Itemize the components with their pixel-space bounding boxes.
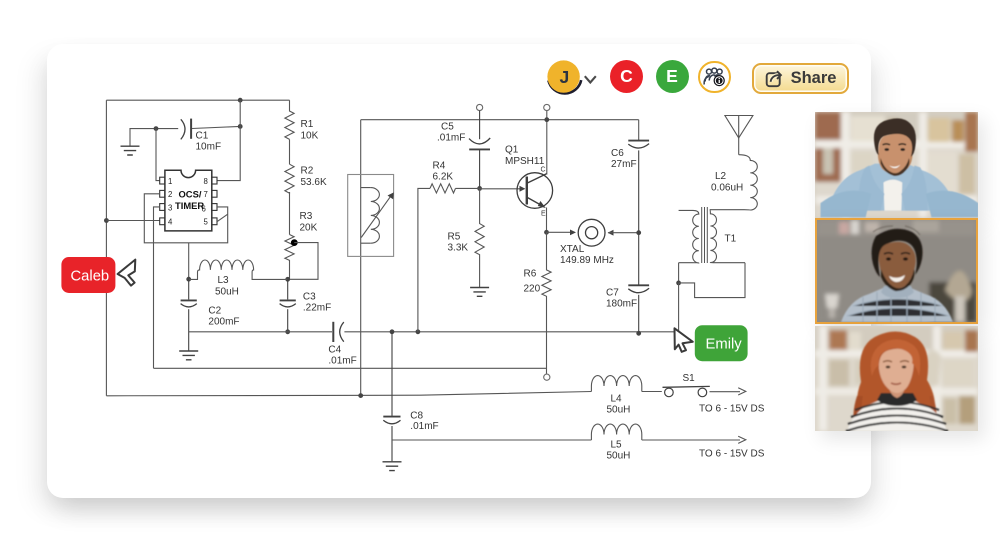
- svg-text:.01mF: .01mF: [328, 356, 356, 367]
- svg-text:149.89 MHz: 149.89 MHz: [560, 255, 614, 266]
- label R6: [524, 269, 541, 295]
- svg-text:L3: L3: [218, 275, 230, 286]
- node junction pin1 tap: [154, 126, 159, 131]
- svg-text:XTAL: XTAL: [560, 244, 585, 255]
- arrow XTAL left: [570, 230, 576, 236]
- svg-text:8: 8: [204, 177, 208, 186]
- wire mid rail: [361, 119, 639, 121]
- svg-text:C7: C7: [606, 288, 619, 299]
- wire C8 node to L5: [392, 439, 591, 441]
- wire R4 to base node: [456, 187, 480, 189]
- label U1 OCS/TIMER: [175, 189, 204, 212]
- label S1: [683, 373, 696, 384]
- wire bus2 horizontal: [154, 367, 548, 369]
- label R3: [300, 211, 318, 234]
- node junction collector rail: [544, 117, 549, 122]
- box around variable inductor: [348, 175, 394, 257]
- svg-text:MPSH11: MPSH11: [505, 156, 545, 167]
- svg-text:TIMER: TIMER: [175, 200, 204, 211]
- transformer T1 primary winding: [679, 210, 699, 263]
- capacitor C5: [469, 111, 490, 189]
- svg-text:T1: T1: [725, 234, 737, 245]
- label L4: [607, 394, 631, 416]
- svg-text:220: 220: [524, 284, 541, 295]
- capacitor C7: [628, 233, 649, 334]
- node junction L3 left: [186, 277, 191, 282]
- ground under R5: [470, 288, 489, 297]
- capacitor C8: [383, 332, 400, 462]
- node junction emitter: [544, 230, 549, 235]
- wire box-bottom to L3 node: [188, 243, 190, 279]
- node junction T1 bottom: [676, 281, 681, 286]
- cursor Caleb pointer: [118, 260, 136, 286]
- svg-text:3.3K: 3.3K: [448, 243, 469, 254]
- antenna: [725, 116, 753, 138]
- wire T1 secondary return staircase: [679, 263, 745, 298]
- label R4: [433, 161, 454, 183]
- pin 3 stub: [160, 204, 165, 211]
- svg-text:.01mF: .01mF: [437, 133, 465, 144]
- ground under C2: [179, 351, 198, 360]
- label T1: [725, 234, 737, 245]
- node junction left rail pin4: [104, 218, 109, 223]
- wire base lead: [480, 188, 525, 190]
- svg-text:OCS/: OCS/: [179, 189, 202, 200]
- svg-text:2: 2: [168, 190, 172, 199]
- node R3 wiper dot: [291, 239, 298, 246]
- capacitor C6: [628, 141, 649, 233]
- crystal XTAL: [578, 219, 605, 246]
- wire C1 to node 240: [192, 126, 240, 128]
- svg-text:E: E: [541, 211, 546, 218]
- label C6: [611, 148, 637, 170]
- wire R4 branch riser: [418, 188, 430, 331]
- inductor L3: [189, 260, 288, 279]
- resistor R1: [285, 100, 294, 139]
- wire pin4 to left rail: [106, 220, 159, 222]
- label C5: [437, 122, 465, 144]
- pin 5 stub: [212, 218, 217, 225]
- label tag Emily: [695, 325, 748, 361]
- svg-text:Q1: Q1: [505, 145, 519, 156]
- pin 8 stub: [212, 177, 217, 184]
- label C1: [196, 131, 222, 153]
- capacitor C3: [280, 279, 296, 332]
- switch S1 contact right: [698, 388, 707, 397]
- arrow into Q1 base: [520, 186, 526, 192]
- svg-text:R5: R5: [448, 232, 461, 243]
- wire pin1 riser: [156, 129, 160, 181]
- wire collector riser: [546, 111, 548, 175]
- label C8: [410, 411, 438, 433]
- wire L2 to T1 secondary: [710, 209, 744, 211]
- arrow L5 output: [738, 436, 746, 443]
- label TO 6 - 15V DS lower: [699, 449, 765, 460]
- svg-text:C2: C2: [208, 306, 221, 317]
- node junction C3 bus: [285, 329, 290, 334]
- arrow variable inductor: [361, 196, 391, 238]
- label R5: [448, 232, 469, 254]
- pin 2 stub: [160, 190, 165, 197]
- ground under C8: [383, 462, 402, 471]
- svg-text:6.2K: 6.2K: [433, 172, 454, 183]
- label XTAL: [560, 244, 614, 266]
- svg-text:10K: 10K: [301, 131, 319, 142]
- svg-text:20K: 20K: [300, 223, 318, 234]
- switch S1 contact left: [665, 388, 674, 397]
- wire R3 wiper loop: [288, 243, 318, 280]
- arrow L4 output: [738, 388, 746, 395]
- label Q1 pin E: [541, 211, 546, 218]
- svg-text:R6: R6: [524, 269, 537, 280]
- resistor R2: [285, 164, 294, 193]
- wire S1 to output arrow: [710, 391, 741, 393]
- inductor L2: [739, 155, 758, 210]
- node junction R4 branch tap: [416, 329, 421, 334]
- node junction C8 tap: [390, 329, 395, 334]
- pin 4 stub: [160, 218, 165, 225]
- wire C1 ground branch: [130, 129, 178, 146]
- resistor R6: [542, 232, 551, 373]
- svg-text:R1: R1: [301, 119, 314, 130]
- wire bottom supply bus: [106, 392, 591, 396]
- wire node240 down to pin8: [217, 100, 240, 180]
- wire pin2 feedback box to pin6: [144, 194, 227, 243]
- label U1 pin numbers: [168, 177, 209, 227]
- svg-text:C3: C3: [303, 292, 316, 303]
- capacitor C1: [181, 119, 191, 140]
- label Q1 pin C: [541, 167, 546, 174]
- label L3: [215, 275, 239, 298]
- svg-text:50uH: 50uH: [607, 405, 631, 416]
- wire XTAL to C6C7 rail: [608, 232, 639, 234]
- transistor Q1: [517, 173, 553, 209]
- svg-text:C6: C6: [611, 148, 624, 159]
- label C4: [328, 345, 356, 367]
- terminal circle below R6: [544, 374, 550, 380]
- wire L4 to switch: [642, 391, 662, 393]
- pin 1 stub: [160, 177, 165, 184]
- svg-text:C8: C8: [410, 411, 423, 422]
- label R2: [301, 166, 327, 189]
- inductor L5: [591, 424, 641, 440]
- svg-text:R2: R2: [301, 166, 314, 177]
- svg-text:TO 6 - 15V DS: TO 6 - 15V DS: [699, 449, 765, 460]
- svg-text:J: J: [560, 67, 570, 87]
- svg-text:53.6K: 53.6K: [301, 177, 327, 188]
- wire emitter drop: [546, 208, 548, 233]
- svg-text:Caleb: Caleb: [71, 268, 110, 284]
- wire R2-R3: [289, 192, 291, 235]
- wire node bus right: [344, 331, 678, 333]
- wire pin5 slant: [217, 214, 228, 222]
- arrow XTAL right: [608, 230, 614, 236]
- svg-text:50uH: 50uH: [607, 451, 631, 462]
- svg-text:L2: L2: [715, 171, 727, 182]
- cursor Emily pointer: [675, 328, 693, 352]
- capacitor C4: [333, 322, 344, 342]
- node junction tuner bottom: [358, 393, 363, 398]
- wire antenna stem: [738, 138, 740, 155]
- node junction A: [285, 277, 290, 282]
- svg-text:C: C: [541, 167, 546, 174]
- label L2: [711, 171, 743, 194]
- wire node bus left: [189, 331, 332, 333]
- label C2: [208, 306, 239, 328]
- label Q1: [505, 145, 545, 168]
- op-amp U1 timer IC body: [165, 170, 212, 231]
- label R1: [301, 119, 319, 142]
- ground near C1: [121, 146, 140, 155]
- svg-text:R3: R3: [300, 211, 313, 222]
- svg-text:3: 3: [168, 203, 172, 212]
- svg-text:C4: C4: [328, 345, 341, 356]
- label tag Caleb: [61, 257, 115, 293]
- transformer T1 secondary winding: [710, 210, 745, 263]
- switch S1 blade: [663, 385, 710, 388]
- terminal circle above Q1: [544, 104, 550, 110]
- node junction top rail: [238, 98, 243, 103]
- svg-text:50uH: 50uH: [215, 287, 239, 298]
- terminal circle above C5: [477, 104, 483, 110]
- svg-text:1: 1: [168, 177, 172, 186]
- transformer T1 core: [702, 207, 708, 263]
- wire left rail: [105, 100, 107, 396]
- label C7: [606, 288, 637, 310]
- variable inductor coil: [371, 188, 380, 244]
- svg-text:7: 7: [204, 190, 208, 199]
- wire T1 node to bus: [678, 283, 680, 332]
- svg-text:S1: S1: [683, 373, 696, 384]
- resistor R3: [285, 235, 294, 280]
- svg-text:5: 5: [204, 218, 209, 227]
- inductor L4: [591, 376, 641, 392]
- resistor R4: [430, 184, 455, 193]
- variable inductor taps: [361, 188, 371, 244]
- svg-text:4: 4: [168, 218, 173, 227]
- svg-text:TO 6 - 15V DS: TO 6 - 15V DS: [699, 404, 765, 415]
- wire T1 primary bottom drop: [678, 263, 680, 283]
- svg-text:Emily: Emily: [706, 336, 743, 352]
- svg-text:27mF: 27mF: [611, 159, 637, 170]
- svg-text:R4: R4: [433, 161, 446, 172]
- label L5: [607, 440, 631, 462]
- node junction Q1 base: [477, 186, 482, 191]
- node junction XTAL right: [636, 230, 641, 235]
- svg-text:.01mF: .01mF: [410, 421, 438, 432]
- svg-text:0.06uH: 0.06uH: [711, 183, 743, 194]
- svg-text:C1: C1: [196, 131, 209, 142]
- wire pin3 down to bus2: [154, 207, 160, 368]
- pin 6 stub: [212, 204, 217, 211]
- svg-text:180mF: 180mF: [606, 299, 637, 310]
- pin 7 stub: [212, 190, 217, 197]
- label TO 6 - 15V DS upper: [699, 404, 765, 415]
- wire top rail: [106, 99, 289, 101]
- wire emitter to XTAL: [547, 231, 573, 233]
- svg-text:L5: L5: [611, 440, 623, 451]
- capacitor C2: [181, 279, 197, 350]
- wire R1-R2: [289, 139, 291, 164]
- wire tuner vertical: [360, 120, 362, 396]
- wire L5 to output arrow: [642, 439, 740, 441]
- node junction C1 right: [238, 124, 243, 129]
- label C3: [303, 292, 331, 314]
- svg-text:.22mF: .22mF: [303, 303, 331, 314]
- svg-text:C5: C5: [441, 122, 454, 133]
- svg-text:200mF: 200mF: [208, 317, 239, 328]
- wire C6C7 vertical: [638, 120, 640, 140]
- resistor R5: [475, 188, 484, 287]
- svg-text:10mF: 10mF: [196, 142, 222, 153]
- node junction C7 bottom: [636, 331, 641, 336]
- svg-text:L4: L4: [611, 394, 623, 405]
